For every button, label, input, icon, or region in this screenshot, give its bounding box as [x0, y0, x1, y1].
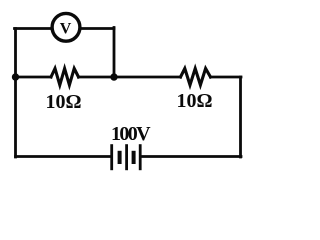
svg-text:V: V [60, 21, 72, 38]
wire: right vertical [239, 77, 242, 157]
svg-text:10Ω: 10Ω [45, 91, 81, 113]
battery B1 (100V) [112, 144, 141, 170]
wire: left vertical (node A to node D) [14, 29, 17, 158]
wire: bottom left to battery [16, 155, 111, 158]
wire: vertical from top corner down to node B [113, 28, 116, 78]
svg-text:10Ω: 10Ω [176, 90, 212, 112]
resistor R2 (10 ohm right) [181, 69, 211, 86]
wire: battery to bottom right [141, 155, 241, 158]
wire: top-left horizontal to voltmeter [15, 27, 52, 30]
wire: node B to resistor R2 [114, 76, 181, 79]
voltmeter U1 [52, 13, 80, 41]
svg-text:100V: 100V [111, 123, 151, 145]
wire: resistor R2 to top-right corner [211, 76, 242, 79]
resistor R1 (10 ohm left) [51, 69, 79, 86]
wire: resistor R1 to node B [79, 76, 115, 79]
junction node A [12, 73, 19, 80]
wire: node A to resistor R1 [16, 76, 52, 79]
junction node B [110, 73, 117, 80]
wire: voltmeter to top-right corner [81, 27, 115, 30]
